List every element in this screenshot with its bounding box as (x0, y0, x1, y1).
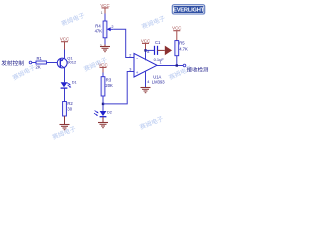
svg-text:VCC: VCC (172, 26, 181, 31)
svg-text:C1: C1 (155, 40, 161, 45)
wire R4 wiper to op-amp pin2 (113, 29, 134, 57)
VCC above R5 (172, 26, 181, 41)
junction node pin8/C1 (144, 49, 146, 51)
port 发射控制 (1, 60, 31, 65)
watermark WM4 (12, 64, 36, 80)
svg-text:LM393: LM393 (152, 80, 165, 85)
watermark WM7 (83, 57, 108, 72)
svg-text:R3: R3 (106, 78, 112, 83)
ground below R2 (60, 116, 70, 130)
svg-text:R5: R5 (179, 41, 185, 46)
svg-text:2K: 2K (36, 64, 41, 69)
svg-text:3: 3 (129, 67, 131, 71)
svg-text:20K: 20K (105, 83, 113, 88)
svg-text:1: 1 (160, 61, 162, 65)
svg-text:30: 30 (67, 107, 72, 112)
resistor R2 30 (63, 101, 74, 116)
svg-text:1: 1 (101, 11, 103, 15)
ground below D2 (98, 123, 108, 128)
photodiode D2 (94, 110, 112, 116)
wire R4 bottom to ground (104, 38, 106, 45)
watermark WM6 (168, 65, 192, 80)
wire VCC to R4 (104, 14, 106, 22)
transistor Q1 9012 (57, 55, 77, 68)
wire VCC to Q1 emitter (64, 50, 66, 59)
port 接收检测 (183, 64, 208, 72)
svg-text:4.7K: 4.7K (179, 47, 188, 52)
wire C1 to ground arrow (158, 49, 165, 51)
svg-text:R2: R2 (67, 101, 73, 106)
ground below R4 (100, 45, 110, 52)
wire node to C1 (146, 49, 155, 51)
junction node R3/D2/pin3 (102, 103, 104, 105)
EVERLIGHT logo (172, 4, 205, 14)
LED D1 (61, 80, 77, 88)
pin 8 wire (145, 50, 147, 60)
resistor R1 2K (36, 56, 47, 69)
svg-text:2: 2 (129, 53, 131, 57)
wire D1 to R2 (64, 89, 66, 102)
wire R3 to D2 with node (102, 96, 104, 111)
output wire pin1 (157, 65, 183, 67)
svg-text:9012: 9012 (67, 59, 77, 64)
svg-text:VCC: VCC (60, 37, 69, 42)
ground below op-amp pin4 (141, 88, 151, 93)
wire R5 to output wire (176, 56, 178, 66)
VCC above Q1 (60, 37, 69, 50)
watermark WM5 (139, 115, 164, 129)
svg-text:D2: D2 (107, 110, 112, 114)
svg-text:VCC: VCC (141, 38, 150, 43)
wire port to R1 (32, 62, 36, 64)
resistor R3 20K (101, 77, 113, 96)
op-amp U1A LM393 (129, 50, 165, 85)
svg-text:VCC: VCC (98, 62, 107, 67)
watermark WM3 (52, 125, 77, 139)
svg-text:VCC: VCC (100, 3, 109, 8)
ground arrow right of C1 (165, 46, 172, 56)
wire Q1 collector to D1 (64, 68, 66, 83)
svg-text:+: + (136, 70, 139, 75)
wire VCC to R3 (102, 73, 104, 77)
VCC above R4 (100, 3, 109, 14)
potentiometer R4 47K (95, 21, 114, 38)
wire R1 to Q1 base (47, 62, 58, 64)
svg-text:47K: 47K (95, 29, 103, 34)
svg-text:R1: R1 (37, 56, 43, 61)
svg-text:4: 4 (147, 80, 149, 84)
svg-text:U1A: U1A (153, 74, 161, 79)
watermark WM2 (141, 15, 166, 29)
capacitor C1 0.1uF (154, 40, 165, 62)
VCC above pin 8 / C1 (141, 38, 150, 50)
watermark WM1 (61, 12, 86, 26)
svg-text:EVERLIGHT: EVERLIGHT (173, 8, 204, 14)
svg-text:D1: D1 (72, 80, 77, 84)
VCC above R3 (98, 62, 107, 73)
wire node to op-amp pin3 (103, 72, 134, 104)
svg-text:2: 2 (111, 25, 113, 29)
wire D2 to ground (102, 117, 104, 122)
resistor R5 4.7K (175, 41, 188, 56)
junction node R5/output (176, 64, 178, 66)
pin 4 wire (145, 71, 147, 88)
